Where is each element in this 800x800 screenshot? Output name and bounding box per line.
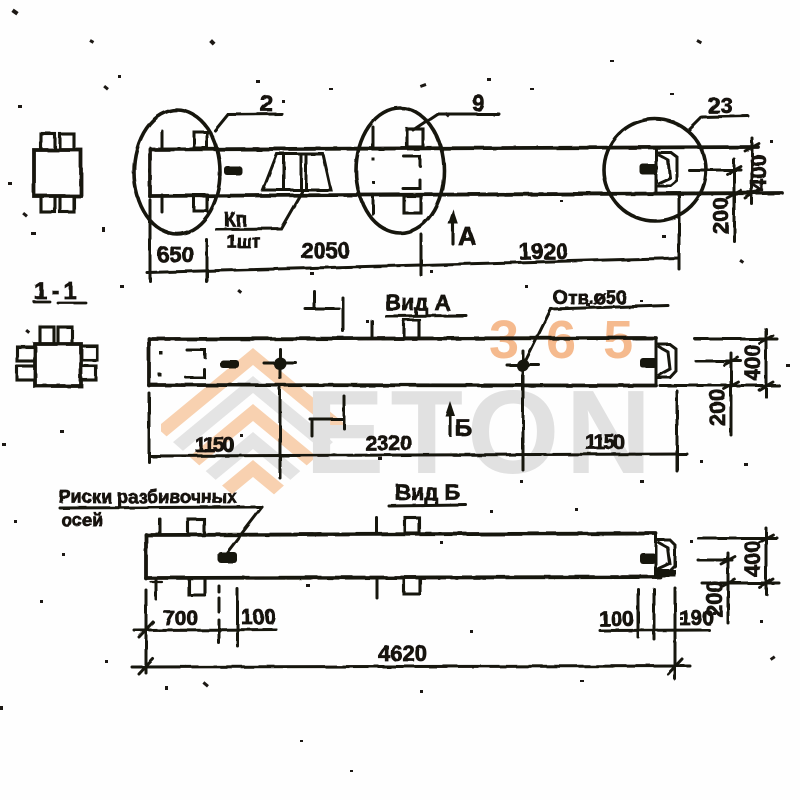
svg-text:200: 200 [708,197,733,234]
middle view 200 dim [730,353,733,435]
hole cross 2 [507,364,539,367]
svg-text:Вид Б: Вид Б [395,480,460,505]
bottom beam left edge [144,535,148,579]
ellipse 9 top tab [407,129,423,147]
top view beam bottom edge [150,193,782,196]
svg-text:9: 9 [472,90,485,116]
top view anchor blob [640,164,658,175]
svg-text:100: 100 [599,608,634,631]
middle beam right edge [655,339,658,386]
ellipse 9 bottom tab [404,196,421,213]
section symbol top-left body [34,150,81,196]
top view KP trapezoid [263,154,331,190]
svg-text:100: 100 [241,606,276,629]
bottom view axis ticks bottom [155,578,158,599]
svg-text:1шт: 1шт [227,232,261,252]
middle view right ext bottom [660,384,779,387]
hole cross 1 [264,362,296,365]
callout 9 leader [413,114,499,130]
svg-text:190: 190 [679,607,714,630]
section 1-1 left tabs [17,347,35,361]
middle view hidden bracket upper [187,350,205,358]
svg-text:4620: 4620 [378,641,427,666]
top view beam left edge [148,149,152,197]
bottom view 400 dim [765,528,768,594]
bottom view anchor loop [657,540,675,571]
svg-text:1920: 1920 [519,239,568,264]
bottom view 200 dim [727,553,730,623]
middle view top tab [404,320,419,338]
middle beam top edge [149,338,656,339]
4620 dim line [132,666,690,667]
riski leader [226,507,262,554]
svg-text:осей: осей [61,510,103,530]
svg-text:Вид А: Вид А [385,290,450,315]
top view dim line [147,258,679,273]
bottom view top tabs [188,519,204,535]
watermark group [161,310,660,553]
ellipse 9 upper bracket [404,157,420,167]
svg-text:Кп: Кп [224,210,247,231]
bottom dim line 700-100 [134,628,276,632]
section symbol top-left tabs [41,134,55,150]
bottom view anchor corner fill [654,570,676,577]
ellipse 2 [134,110,220,234]
top view left bottom tab [194,195,207,211]
svg-text:700: 700 [163,607,198,630]
top view 400 dim line [751,138,754,204]
middle beam bottom edge [149,383,656,387]
weld mark below view A [310,418,344,421]
svg-text:200: 200 [705,389,730,426]
middle view anchor loop [657,345,676,378]
middle view right ext top [695,338,777,341]
middle view 400 dim [765,329,768,397]
svg-text:2050: 2050 [301,238,350,263]
middle view lower dim line [149,454,687,456]
bottom view riska mark [218,552,237,563]
svg-text:2320: 2320 [365,432,412,455]
top view dim tick 207 [206,240,209,282]
callout 2 leader [215,114,282,131]
svg-text:400: 400 [740,540,765,577]
bottom view right ext top [698,537,777,540]
bottom view right ext bottom [702,582,779,585]
bottom view right ext mid [698,559,732,562]
top view riska bar [224,166,242,175]
top view anchor loop [657,153,677,187]
section 1-1 top tabs [40,327,54,344]
top view dim extension left [149,200,152,281]
svg-text:2: 2 [260,90,273,116]
top view left top tab [194,132,207,148]
svg-text:Б: Б [455,415,472,442]
middle view riska bar [220,360,239,368]
svg-text:23: 23 [708,93,732,118]
middle view axis dots left [159,351,163,355]
KP leader [216,192,302,229]
circle 23 [604,119,706,221]
riski label underline [60,507,262,508]
bottom beam bottom edge [146,577,660,578]
middle view hidden bracket lower [186,369,204,378]
bottom dim extensions right [637,589,640,637]
bottom dim line 100-190 [600,629,709,633]
middle beam left edge [147,339,151,386]
bottom view anchor blob [640,553,656,564]
top view beam right edge [655,148,658,194]
bottom dim extensions left [145,590,148,673]
ellipse 9 lower bracket [403,180,420,189]
ellipse 9 axis line [372,127,375,148]
svg-text:650: 650 [157,242,194,267]
section 1-1 body [35,344,81,386]
ellipse 9 [356,108,444,233]
svg-text:А: А [458,221,477,251]
top view dim extension right [678,196,681,269]
top view 200 dim line [733,159,736,241]
view arrow A [451,214,454,244]
svg-text:400: 400 [746,154,771,191]
weld mark above view A left [305,307,339,310]
middle view axis tick top [371,321,374,338]
middle view lower dim extensions [148,393,151,462]
svg-text:Риски разбивочных: Риски разбивочных [59,487,237,507]
view arrow B [448,406,451,435]
bottom view axis ticks top [159,519,162,535]
bottom beam right edge [655,534,658,578]
middle view right ext mid [696,360,741,363]
bottom view bottom tabs [189,578,205,595]
bottom beam top edge [146,534,656,536]
top view left axis ticks [161,131,164,149]
top view dim tick 421 [420,234,423,275]
svg-text:400: 400 [740,344,765,381]
section 1-1 right tabs [81,346,97,360]
svg-text:1150: 1150 [585,431,624,454]
top view right mid line [689,169,741,172]
middle view anchor blob [640,358,657,368]
callout 23 leader [688,116,748,131]
top view beam top edge [150,147,758,150]
svg-text:1150: 1150 [195,434,234,457]
